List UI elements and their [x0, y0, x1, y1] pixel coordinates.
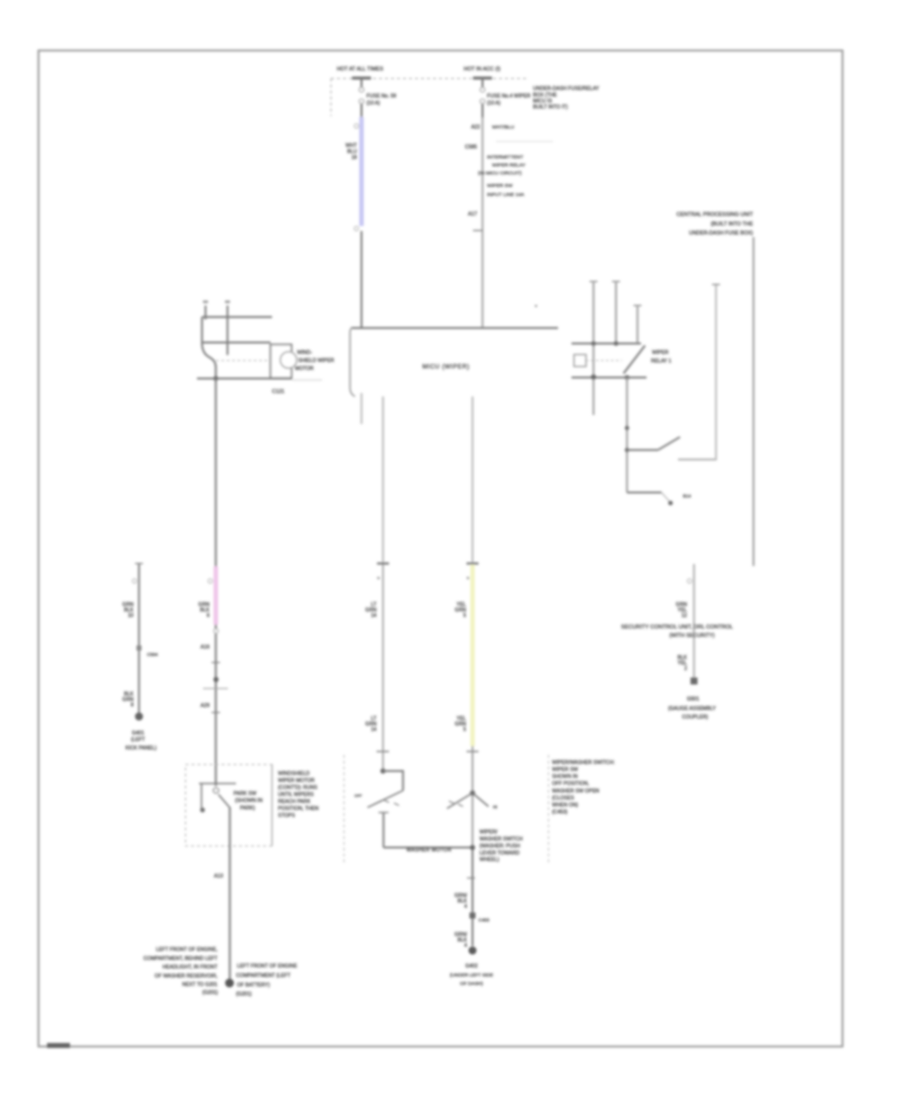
svg-text:WASHER MOTOR: WASHER MOTOR: [406, 848, 451, 854]
note central processing unit: [677, 212, 754, 237]
connector tick: [212, 662, 221, 664]
svg-text:WIPER/: WIPER/: [480, 830, 499, 836]
connector circle: [208, 579, 212, 583]
svg-text:(WITH SECURITY): (WITH SECURITY): [669, 633, 715, 639]
switch S5 left arm: [447, 793, 473, 809]
wire color label WHT/BLU: [346, 143, 358, 161]
svg-text:(C453): (C453): [552, 810, 568, 816]
svg-text:WASHER SWITCH: WASHER SWITCH: [480, 837, 524, 843]
svg-text:A17: A17: [468, 212, 477, 218]
wire blue WHT/BLU: [359, 117, 363, 226]
svg-text:12: 12: [681, 613, 687, 619]
svg-text:WIPER/WASHER SWITCH:: WIPER/WASHER SWITCH:: [552, 760, 615, 766]
svg-text:(WASHER: PUSH: (WASHER: PUSH: [480, 844, 521, 850]
svg-text:SHIELD WIPER: SHIELD WIPER: [298, 358, 335, 364]
under-dash fuse/relay box dashed left edge: [330, 79, 332, 117]
svg-text:WIND-: WIND-: [297, 350, 312, 356]
svg-text:COMPARTMENT (LEFT: COMPARTMENT (LEFT: [236, 973, 290, 979]
svg-text:(10 A): (10 A): [367, 101, 381, 107]
wire relay pin 2: [615, 282, 617, 344]
contact tick: [458, 804, 463, 807]
motor circle M: [280, 352, 296, 368]
pin tick 3: [634, 305, 642, 307]
svg-text:10: 10: [128, 613, 134, 619]
ground dot G402: [469, 947, 477, 955]
switch box dashed right edge: [548, 755, 550, 864]
svg-text:WIPER MOTOR: WIPER MOTOR: [278, 778, 315, 784]
svg-text:C453: C453: [479, 918, 490, 923]
contact tick: [384, 800, 389, 803]
svg-text:(SHOWN IN: (SHOWN IN: [235, 798, 263, 804]
wire motor branch lower segment: [215, 624, 217, 787]
wire color label: [455, 716, 467, 733]
wire color label: [454, 893, 467, 910]
connector circle on wire: [214, 629, 218, 633]
contact tick selected: [379, 812, 389, 814]
svg-text:(LEFT: (LEFT: [131, 737, 145, 743]
svg-text:RELAY 1: RELAY 1: [651, 359, 671, 365]
relay top rail: [572, 343, 642, 345]
wire color label: [455, 602, 467, 619]
switch S2 lead: [627, 449, 658, 451]
wire right bus: [752, 237, 754, 566]
bus bar tap right: [473, 77, 492, 80]
relay bottom rail: [572, 377, 647, 379]
park switch terminal arc: [213, 788, 218, 793]
wire ground chain segment: [472, 847, 474, 946]
svg-text:(G201): (G201): [202, 990, 218, 996]
svg-text:WIPER RELAY: WIPER RELAY: [492, 163, 526, 169]
connector tick dark: [377, 562, 389, 564]
svg-text:HOT IN ACC (I): HOT IN ACC (I): [464, 67, 501, 73]
svg-text:SECURITY CONTROL UNIT, DRL CON: SECURITY CONTROL UNIT, DRL CONTROL: [621, 625, 733, 631]
under-dash fuse/relay box label: [533, 86, 600, 111]
svg-text:(GAUGE ASSEMBLY: (GAUGE ASSEMBLY: [668, 706, 716, 712]
connector tick: [377, 751, 390, 753]
connector circle: [132, 579, 136, 583]
wire to MICU box: [361, 231, 363, 328]
connector tick dark: [467, 562, 479, 564]
svg-text:(BUILT INTO THE: (BUILT INTO THE: [711, 222, 754, 228]
wire park switch to ground: [229, 808, 231, 984]
svg-text:STOPS: STOPS: [278, 813, 296, 819]
pin tick 4: [712, 284, 720, 286]
splice square: [137, 646, 142, 651]
junction dot: [213, 376, 218, 381]
brush tick 2: [227, 306, 229, 356]
wire relay pin 1: [593, 282, 595, 416]
svg-text:UNDER-DASH FUSE BOX): UNDER-DASH FUSE BOX): [689, 231, 753, 237]
svg-text:WHT/BLU: WHT/BLU: [492, 125, 515, 131]
svg-text:WHEN ON): WHEN ON): [552, 803, 578, 809]
svg-text:OFF: OFF: [354, 794, 362, 798]
svg-text:18: 18: [351, 155, 357, 161]
svg-text:OFF POSITION,: OFF POSITION,: [552, 781, 589, 787]
wire color label: [365, 716, 377, 733]
connector C2 on blue wire: [354, 226, 358, 230]
wiper input label block: [487, 183, 525, 198]
switch box dashed left edge: [343, 755, 345, 864]
crimp line: [203, 688, 228, 690]
svg-text:UNTIL WIPERS: UNTIL WIPERS: [278, 792, 314, 798]
wire ground branch: [138, 564, 140, 715]
relay switch arm: [624, 346, 646, 374]
MICU box top edge: [351, 327, 558, 329]
junction dot on rail: [470, 845, 475, 850]
pin tick 1: [590, 281, 598, 283]
left edge curve into wire: [202, 317, 216, 379]
svg-text:G501: G501: [687, 697, 700, 703]
svg-text:(G201): (G201): [236, 992, 252, 998]
ground dot G401: [135, 713, 143, 721]
connector tick on wire: [473, 230, 483, 232]
motor label: [295, 350, 335, 372]
svg-text:BUILT INTO IT): BUILT INTO IT): [533, 105, 568, 111]
svg-text:6: 6: [207, 613, 210, 619]
svg-text:C585: C585: [465, 145, 477, 151]
pin dot: [377, 577, 380, 580]
svg-text:2: 2: [684, 666, 687, 672]
junction dot: [625, 375, 630, 380]
washer rail: [384, 847, 473, 849]
svg-text:COUPLER): COUPLER): [682, 715, 708, 721]
svg-text:HOT AT ALL TIMES: HOT AT ALL TIMES: [337, 67, 384, 73]
pin dot: [467, 577, 470, 580]
wire relay pin 3: [637, 306, 639, 344]
svg-text:C121: C121: [272, 389, 285, 395]
dashed link to motor: [216, 360, 270, 362]
motor note block: [278, 771, 319, 819]
pin label tick b: [225, 301, 230, 304]
svg-text:A22: A22: [471, 125, 480, 131]
svg-text:8: 8: [131, 703, 134, 709]
svg-text:HEADLIGHT, IN FRONT: HEADLIGHT, IN FRONT: [163, 965, 218, 971]
svg-text:FUSE No.4 WIPER: FUSE No.4 WIPER: [487, 94, 531, 100]
svg-text:KICK PANEL): KICK PANEL): [125, 746, 156, 752]
svg-text:WIPER: WIPER: [652, 350, 669, 356]
junction dot: [591, 374, 596, 379]
wire color label: [676, 602, 688, 619]
wire down from relay: [626, 378, 628, 493]
connector tick: [212, 712, 221, 714]
wire security branch: [693, 564, 695, 678]
svg-text:WINDSHIELD: WINDSHIELD: [278, 771, 310, 777]
svg-text:B14: B14: [683, 494, 692, 499]
fuse F59 leads: [361, 79, 363, 88]
contact tick: [449, 801, 454, 804]
switch S2 arm: [658, 437, 680, 450]
motor top rail: [202, 316, 272, 318]
under-dash fuse/relay box dashed top edge: [331, 78, 526, 80]
fuse F4 symbol: [480, 87, 485, 92]
svg-text:A16: A16: [201, 645, 210, 651]
svg-text:(UNDER LEFT SIDE: (UNDER LEFT SIDE: [450, 973, 493, 978]
relay label block: [478, 155, 526, 177]
svg-text:C564: C564: [147, 652, 158, 657]
motor connector box: [271, 345, 292, 379]
contact tick: [394, 803, 399, 806]
svg-text:WASHER SW OPEN: WASHER SW OPEN: [552, 789, 600, 795]
svg-text:(IN MICU CIRCUIT): (IN MICU CIRCUIT): [478, 171, 522, 177]
svg-text:4: 4: [464, 904, 467, 910]
junction dot: [591, 341, 596, 346]
svg-text:INPUT LINE 14A: INPUT LINE 14A: [487, 192, 525, 198]
wire LO from MICU: [382, 397, 384, 564]
svg-text:(CONT'D): RUNS: (CONT'D): RUNS: [278, 785, 318, 791]
svg-text:CENTRAL PROCESSING UNIT: CENTRAL PROCESSING UNIT: [677, 212, 754, 218]
connector circle: [687, 579, 691, 583]
switch S3 pivot dot: [668, 501, 673, 506]
wire yellow segment: [470, 565, 474, 746]
svg-text:(CLOSES: (CLOSES: [552, 796, 575, 802]
svg-text:G401: G401: [132, 731, 145, 737]
svg-text:4: 4: [464, 943, 467, 949]
switch S3 lead: [627, 492, 662, 494]
switch S5 right arm: [473, 793, 489, 807]
svg-text:SHOWN IN: SHOWN IN: [552, 774, 578, 780]
wire color label: [122, 692, 134, 709]
wire color label: [122, 602, 134, 619]
connector C1 on blue wire: [354, 124, 358, 128]
faint rail extension: [292, 379, 322, 381]
connector tick: [467, 751, 479, 753]
park switch arm: [219, 795, 231, 809]
terminal square: [691, 678, 698, 685]
svg-text:5: 5: [463, 727, 466, 733]
park contact lead: [201, 784, 203, 810]
pin tick 2: [612, 281, 620, 283]
relay name label: [651, 350, 671, 365]
wire LO lower segment: [382, 563, 384, 771]
svg-text:(10 A): (10 A): [487, 101, 501, 107]
svg-text:OF DASH): OF DASH): [460, 981, 483, 987]
connector tick: [467, 877, 475, 879]
switch S2 contact plate: [678, 459, 717, 461]
svg-text:LEVER TOWARD: LEVER TOWARD: [480, 851, 520, 857]
pin tick: [135, 563, 143, 565]
svg-text:5: 5: [463, 613, 466, 619]
svg-text:UNDER-DASH FUSE/RELAY: UNDER-DASH FUSE/RELAY: [533, 86, 600, 92]
svg-text:14: 14: [371, 613, 377, 619]
wire HI from MICU: [472, 397, 474, 565]
switch S3 arm: [662, 493, 670, 502]
wire color label: [365, 602, 377, 619]
wire gray lower segment: [472, 746, 474, 847]
MICU box left edge: [350, 328, 355, 397]
stub pin under box: [361, 393, 363, 424]
svg-text:A13: A13: [214, 874, 223, 880]
park contact dot: [200, 808, 205, 813]
switch S4 arm: [368, 791, 404, 808]
page number label bottom-left: [47, 1043, 70, 1048]
svg-text:OF WASHER RESERVOIR,: OF WASHER RESERVOIR,: [155, 974, 218, 980]
junction dot pivot: [470, 790, 475, 795]
svg-text:PARK SW: PARK SW: [234, 791, 257, 797]
relay coil: [574, 355, 586, 367]
park switch rail: [199, 783, 236, 785]
wire color label: [198, 602, 210, 619]
pin label tick a: [203, 301, 208, 304]
wire from fuse F4 down: [482, 118, 484, 328]
wire motor to park switch: [215, 379, 217, 569]
switch note block: [480, 830, 524, 864]
box right edge solid: [271, 765, 273, 847]
ground note left: [143, 947, 218, 996]
splice square: [470, 913, 476, 919]
ground note right: [236, 964, 298, 998]
node dot: [535, 305, 537, 307]
dashed box note right: [552, 760, 615, 816]
bus bar tap left: [352, 77, 371, 80]
svg-text:MICU (WIPER): MICU (WIPER): [422, 364, 469, 371]
wire down to washer rail: [383, 813, 385, 848]
svg-text:COMPARTMENT, BEHIND LEFT: COMPARTMENT, BEHIND LEFT: [143, 956, 217, 962]
svg-text:WHEEL): WHEEL): [480, 857, 500, 863]
svg-text:HI: HI: [493, 805, 497, 810]
junction dot: [380, 768, 385, 773]
svg-text:INTERMITTENT: INTERMITTENT: [487, 155, 523, 161]
relay link dashed: [586, 360, 622, 362]
brush tick 1: [205, 306, 207, 320]
ground dot G201: [225, 979, 234, 988]
park switch label: [234, 791, 263, 812]
wire color label: [454, 932, 467, 949]
svg-text:G402: G402: [465, 964, 478, 970]
fuse F59 symbol: [359, 87, 364, 92]
park switch box: [186, 765, 273, 847]
fuse F4 leads: [482, 79, 484, 88]
faint separator line: [496, 141, 553, 143]
svg-text:WIPER SW: WIPER SW: [552, 767, 578, 773]
svg-text:LEFT FRONT OF ENGINE: LEFT FRONT OF ENGINE: [237, 964, 298, 970]
wire color label: [677, 655, 687, 672]
junction dot: [625, 448, 629, 452]
wire contact to top: [715, 285, 717, 460]
svg-text:MOTOR: MOTOR: [295, 366, 314, 372]
svg-text:REACH PARK: REACH PARK: [278, 799, 311, 805]
svg-text:FUSE No. 59: FUSE No. 59: [367, 94, 397, 100]
motor bottom rail: [197, 378, 292, 380]
motor mid rail: [202, 342, 271, 344]
svg-text:LEFT FRONT OF ENGINE,: LEFT FRONT OF ENGINE,: [156, 947, 218, 953]
junction dot: [614, 341, 619, 346]
svg-text:PARK): PARK): [240, 806, 255, 812]
svg-text:A29: A29: [201, 703, 210, 709]
wire pink segment: [214, 567, 218, 625]
svg-text:14: 14: [371, 727, 377, 733]
svg-text:NEXT TO G201: NEXT TO G201: [182, 982, 218, 988]
splice dot: [213, 677, 218, 682]
svg-text:OF BATTERY): OF BATTERY): [237, 983, 270, 989]
junction dot: [625, 426, 629, 430]
svg-text:POSITION, THEN: POSITION, THEN: [278, 806, 319, 812]
svg-text:WIPER SW: WIPER SW: [487, 183, 513, 189]
jog to switch: [383, 771, 403, 791]
